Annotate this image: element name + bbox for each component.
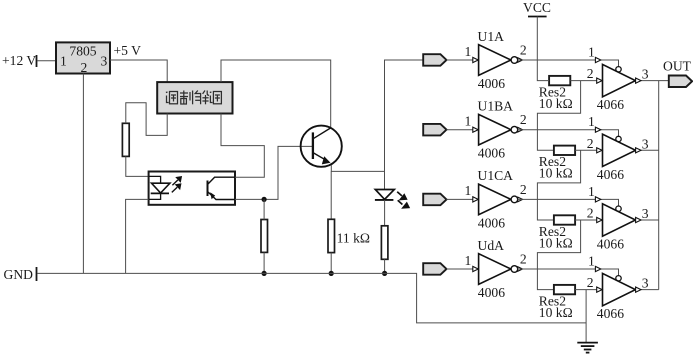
wire GND rail: [38, 273, 587, 323]
wire modem bottom-left to R-bias top: [126, 103, 167, 136]
svg-text:10 kΩ: 10 kΩ: [539, 235, 573, 250]
opto LED: [149, 176, 170, 199]
svg-text:1: 1: [465, 183, 472, 198]
svg-text:1: 1: [465, 114, 472, 129]
svg-text:4006: 4006: [478, 76, 505, 91]
svg-text:10 kΩ: 10 kΩ: [539, 166, 573, 181]
analog switch 4066 stage 2: [603, 134, 636, 166]
wire R1 to GND rail: [330, 253, 332, 274]
transistor Q1: [301, 126, 342, 167]
svg-text:2: 2: [520, 182, 527, 197]
LED D1: [375, 190, 394, 200]
wire port P4 to inverter: [447, 268, 479, 270]
4066 ctrl bubble: [616, 206, 621, 211]
wire output bus: [658, 81, 660, 290]
wire opto cathode to GND rail: [126, 199, 149, 273]
opto light arrows: [172, 177, 181, 193]
modem box U2 (modulate/demodulate): [157, 82, 232, 113]
svg-text:4006: 4006: [478, 146, 505, 161]
terminal +12V: [36, 55, 38, 67]
wire port P3 to inverter: [447, 198, 479, 200]
svg-text:3: 3: [642, 136, 649, 151]
wire resistor chain stage 3-4: [537, 220, 580, 290]
wire 4066 output stage 1: [636, 80, 669, 82]
analog switch 4066 stage 3: [603, 204, 636, 236]
svg-text:2: 2: [587, 275, 594, 290]
4066 ctrl bubble: [616, 67, 621, 72]
svg-text:2: 2: [81, 60, 88, 75]
svg-text:1: 1: [465, 44, 472, 59]
resistor Res2 10k stage 1: [549, 76, 570, 85]
wire port P1 to inverter: [447, 59, 479, 61]
optocoupler U3 box: [149, 172, 235, 205]
svg-text:3: 3: [642, 276, 649, 291]
wire 4066 output stage 3: [636, 219, 659, 221]
svg-text:OUT: OUT: [663, 59, 692, 74]
wire VCC to Res2 stage 1: [537, 17, 549, 81]
svg-text:VCC: VCC: [523, 0, 551, 15]
svg-text:4006: 4006: [478, 215, 505, 230]
port OUT: [669, 76, 692, 88]
terminal GND: [36, 267, 38, 281]
resistor R1 11k: [328, 219, 335, 252]
wire opto emitter to Q1 base: [235, 146, 313, 199]
svg-text:U1CA: U1CA: [478, 168, 514, 183]
svg-text:1: 1: [588, 114, 595, 129]
wire 7805 pin2 to GND rail: [82, 74, 84, 274]
svg-text:4066: 4066: [597, 306, 624, 321]
svg-text:3: 3: [642, 206, 649, 221]
svg-text:U1BA: U1BA: [478, 99, 514, 114]
svg-text:4066: 4066: [597, 167, 624, 182]
wire stage4 pin2 to ground: [585, 290, 587, 343]
svg-text:2: 2: [520, 43, 527, 58]
wire Res2 to 4066 pin2: [575, 219, 602, 221]
svg-text:UdA: UdA: [478, 238, 505, 253]
svg-text:10 kΩ: 10 kΩ: [539, 305, 573, 320]
svg-text:2: 2: [520, 252, 527, 267]
resistor Res2 10k stage 4: [554, 285, 575, 294]
LED light arrows: [397, 192, 409, 208]
resistor R-bias (modem to opto LED): [122, 123, 129, 156]
junction: R-led / GND: [382, 271, 387, 276]
junction: emitter node: [262, 197, 267, 202]
resistor R-e (opto emitter pulldown): [261, 220, 268, 253]
wire resistor chain stage 2-3: [537, 150, 580, 220]
inverter UdA 4006: [479, 254, 511, 285]
wire Res2 to 4066 pin2: [575, 149, 602, 151]
svg-text:U1A: U1A: [478, 29, 505, 44]
inverter U1CA 4006: [479, 184, 511, 215]
opto phototransistor: [208, 177, 236, 199]
analog switch 4066 stage 4: [603, 273, 636, 305]
svg-text:10 kΩ: 10 kΩ: [539, 96, 573, 111]
svg-text:2: 2: [520, 112, 527, 127]
svg-text:2: 2: [587, 136, 594, 151]
svg-text:11 kΩ: 11 kΩ: [337, 231, 370, 246]
wire 7805 pin3 +5V to modem box top-left: [110, 60, 167, 82]
ground symbol: [577, 343, 598, 353]
wire inverter out to 4066 ctrl bubble: [518, 269, 619, 276]
svg-text:1: 1: [588, 45, 595, 60]
svg-text:2: 2: [587, 66, 594, 81]
wire modem top-right to Q1 collector: [221, 60, 331, 128]
inverter U1A 4006: [479, 45, 511, 76]
svg-text:4006: 4006: [478, 285, 505, 300]
wire inverter out to 4066 ctrl bubble: [518, 199, 619, 206]
wire port P2 to inverter: [447, 129, 479, 131]
analog switch 4066 stage 1: [603, 64, 636, 96]
port connector P1: [423, 54, 446, 65]
wire resistor chain stage 1-2: [537, 81, 580, 151]
svg-text:3: 3: [642, 67, 649, 82]
wire modem bottom-right to opto collector: [221, 114, 264, 178]
svg-text:1: 1: [588, 254, 595, 269]
wire LED feed (emitter node up to stage1 input row): [385, 60, 424, 189]
wire R-bias bottom to opto LED anode: [126, 156, 149, 176]
port connector P3: [423, 194, 446, 206]
wire +12V to 7805 pin1: [38, 60, 57, 62]
wire R-e to GND rail: [263, 252, 265, 273]
wire R-led to GND rail: [384, 259, 386, 273]
wire Res2 to 4066 pin2: [570, 80, 602, 82]
resistor R-led: [381, 226, 388, 259]
svg-text:4066: 4066: [597, 237, 624, 252]
wire emitter node to R 11k: [330, 171, 332, 219]
svg-text:2: 2: [587, 206, 594, 221]
junction: R-e / GND: [262, 271, 267, 276]
svg-text:+12 V: +12 V: [2, 53, 36, 68]
wire inverter out to 4066 ctrl bubble: [518, 60, 619, 67]
svg-text:GND: GND: [4, 267, 34, 282]
4066 ctrl bubble: [616, 136, 621, 141]
wire inverter out to 4066 ctrl bubble: [518, 130, 619, 137]
svg-text:1: 1: [465, 253, 472, 268]
svg-text:7805: 7805: [69, 44, 96, 59]
svg-text:4066: 4066: [597, 97, 624, 112]
wire Res2 to 4066 pin2: [575, 289, 602, 291]
port connector P2: [423, 124, 446, 135]
inverter U1BA 4006: [479, 114, 511, 145]
svg-text:1: 1: [60, 54, 67, 69]
svg-text:1: 1: [588, 184, 595, 199]
resistor Res2 10k stage 3: [554, 215, 575, 224]
svg-text:+5 V: +5 V: [114, 43, 142, 58]
svg-text:3: 3: [101, 54, 108, 69]
wire 4066 output stage 2: [636, 149, 659, 151]
4066 ctrl bubble: [616, 276, 621, 281]
wire Q1 emitter to node: [331, 165, 384, 172]
resistor Res2 10k stage 2: [554, 146, 575, 155]
wire emitter node to R-e: [263, 199, 265, 219]
junction: R1 / GND: [329, 271, 334, 276]
wire 4066 output stage 4: [636, 289, 659, 291]
port connector P4: [423, 263, 446, 275]
wire LED to R-led: [384, 200, 386, 226]
regulator 7805: [56, 42, 110, 73]
